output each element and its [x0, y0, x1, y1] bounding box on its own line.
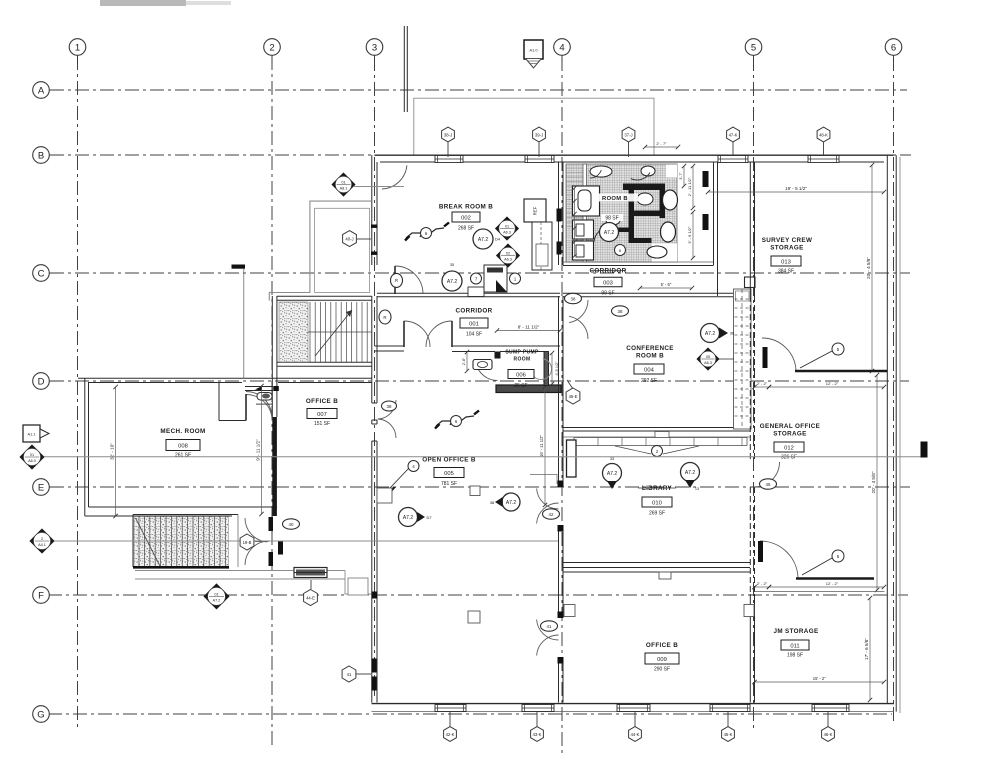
break room SW door — [395, 266, 423, 294]
west wall of main wing — [371, 155, 373, 265]
svg-text:12' - 2": 12' - 2" — [826, 581, 839, 586]
svg-text:A7.2: A7.2 — [403, 515, 414, 521]
hexagon 40-J NW — [357, 238, 371, 240]
canopy outline north — [414, 98, 654, 155]
svg-text:D4: D4 — [495, 237, 501, 242]
keynote hexagons bottom — [449, 712, 451, 727]
svg-text:A7.2: A7.2 — [506, 500, 517, 506]
svg-text:OPEN OFFICE B: OPEN OFFICE B — [422, 457, 476, 464]
svg-text:01: 01 — [341, 181, 345, 185]
svg-text:13: 13 — [695, 487, 699, 491]
svg-text:ROOM: ROOM — [514, 357, 531, 363]
svg-text:SURVEY CREW: SURVEY CREW — [762, 237, 813, 244]
svg-text:37-J: 37-J — [624, 132, 632, 137]
svg-text:5' - 5": 5' - 5" — [661, 282, 672, 287]
svg-text:25 SF: 25 SF — [514, 383, 527, 389]
north windows — [435, 156, 463, 163]
hexagon 44-E walkway — [310, 580, 312, 589]
svg-text:008: 008 — [178, 443, 188, 449]
south exterior wall — [372, 703, 895, 705]
svg-text:198 SF: 198 SF — [787, 653, 803, 659]
east exterior wall — [886, 155, 888, 704]
svg-text:9' - 11 1/2": 9' - 11 1/2" — [256, 439, 261, 461]
upper stair treads — [308, 302, 372, 362]
svg-text:A6.3: A6.3 — [504, 258, 512, 262]
svg-text:006: 006 — [516, 372, 526, 378]
svg-text:012: 012 — [784, 445, 794, 451]
REF closet — [524, 199, 546, 222]
svg-text:39-J: 39-J — [535, 132, 543, 137]
west wall window glazing marks — [371, 225, 378, 228]
svg-text:2' - 11 1/2": 2' - 11 1/2" — [687, 177, 692, 196]
svg-text:ROOM B: ROOM B — [602, 196, 628, 202]
svg-text:384 SF: 384 SF — [778, 269, 794, 275]
svg-text:CORRIDOR: CORRIDOR — [589, 268, 626, 275]
svg-text:42-K: 42-K — [446, 732, 455, 737]
break room tags — [473, 229, 493, 249]
svg-text:38: 38 — [387, 404, 392, 409]
hexagon 45-E sump — [567, 380, 573, 389]
sump big circle symbol — [531, 359, 552, 380]
svg-text:20' - 4 5/8": 20' - 4 5/8" — [871, 471, 876, 493]
restroom left dim string — [574, 188, 576, 256]
storage west door — [755, 462, 780, 487]
svg-text:46-K: 46-K — [824, 732, 833, 737]
svg-text:48-K: 48-K — [819, 132, 828, 137]
svg-text:ROOM B: ROOM B — [636, 353, 664, 360]
A7.2 + diamond tags by conference — [701, 324, 720, 343]
break room casework — [532, 222, 552, 270]
survey west wall — [749, 162, 751, 296]
svg-text:38: 38 — [490, 500, 495, 505]
svg-text:261 SF: 261 SF — [175, 453, 191, 459]
svg-text:45: 45 — [766, 482, 771, 487]
column stub above mech (row C) — [232, 265, 246, 269]
walkway south edge — [135, 570, 345, 572]
svg-text:MECH. ROOM: MECH. ROOM — [160, 428, 205, 435]
svg-text:42: 42 — [549, 512, 554, 517]
svg-text:41: 41 — [547, 624, 552, 629]
svg-text:R: R — [383, 315, 386, 320]
svg-text:A1.0: A1.0 — [529, 48, 538, 53]
corridor 003 walls — [563, 261, 714, 263]
svg-text:R: R — [395, 278, 398, 283]
upper stair enclosure — [277, 295, 372, 297]
svg-text:A1.1: A1.1 — [27, 432, 35, 437]
restroom stalls white — [573, 186, 600, 216]
break room NW door — [382, 165, 407, 189]
svg-text:326 SF: 326 SF — [781, 455, 797, 461]
restroom east wall — [713, 162, 715, 265]
mech wing north wall — [78, 377, 372, 379]
restroom internal walls thin — [583, 164, 587, 262]
svg-text:011: 011 — [790, 643, 799, 649]
dim right of restroom — [692, 166, 694, 208]
svg-text:38: 38 — [618, 309, 623, 314]
svg-text:002: 002 — [461, 215, 471, 221]
A7.2 tag inside restroom — [600, 223, 619, 242]
svg-text:20' - 4 5/8": 20' - 4 5/8" — [866, 257, 871, 279]
corridor south wall + doors — [375, 345, 405, 347]
svg-text:269 SF: 269 SF — [649, 511, 665, 517]
lower stair treads & speckle — [134, 517, 229, 567]
west wall doors office007 — [378, 400, 396, 419]
grid bubbles columns — [77, 55, 79, 62]
svg-text:A8.1: A8.1 — [340, 187, 348, 191]
oval by entry — [379, 310, 391, 324]
svg-text:A6.3: A6.3 — [503, 231, 511, 235]
conference west double doors — [569, 300, 588, 323]
sump alcove fixture — [473, 360, 492, 370]
svg-text:16' - 11 1/2": 16' - 11 1/2" — [539, 434, 544, 457]
entry vestibule door (mech north) — [245, 386, 273, 388]
svg-text:SUMP PUMP: SUMP PUMP — [505, 350, 539, 356]
svg-text:013: 013 — [781, 259, 791, 265]
svg-text:A7.2: A7.2 — [213, 598, 221, 602]
svg-text:99 SF: 99 SF — [601, 291, 614, 297]
svg-text:38-J: 38-J — [444, 132, 452, 137]
recess niche in corridor north wall — [468, 287, 484, 297]
restroom black wall cluster — [623, 184, 665, 191]
walkway square notch — [348, 578, 368, 595]
svg-text:007: 007 — [317, 412, 327, 418]
svg-text:REF: REF — [533, 206, 538, 215]
mech room interior notch — [219, 420, 246, 422]
svg-text:47-K: 47-K — [729, 132, 738, 137]
svg-text:43-K: 43-K — [533, 732, 542, 737]
keynote hexagons top — [447, 142, 449, 157]
central north-south wall x560 — [558, 162, 560, 265]
svg-text:151 SF: 151 SF — [314, 421, 330, 427]
library west doors — [537, 489, 559, 510]
svg-text:LIBRARY: LIBRARY — [642, 485, 673, 492]
svg-text:05: 05 — [706, 355, 710, 359]
svg-text:C: C — [38, 269, 45, 280]
svg-text:5' - 6 1/2": 5' - 6 1/2" — [687, 226, 692, 243]
flag pole wall stub — [403, 26, 405, 112]
svg-text:781 SF: 781 SF — [441, 481, 457, 487]
sump pump room walls — [496, 385, 561, 393]
storage west wall dashed — [749, 372, 751, 462]
svg-text:STORAGE: STORAGE — [773, 431, 806, 438]
svg-text:33: 33 — [610, 457, 614, 461]
svg-text:19' - 5 1/2": 19' - 5 1/2" — [785, 186, 807, 191]
svg-text:CORRIDOR: CORRIDOR — [455, 308, 492, 315]
stair-vestibule double door — [245, 518, 267, 542]
svg-text:BREAK ROOM B: BREAK ROOM B — [439, 204, 493, 211]
svg-text:010: 010 — [652, 500, 662, 506]
svg-text:D: D — [38, 377, 45, 388]
library north casework — [563, 436, 750, 438]
counter line open office — [530, 475, 557, 485]
walkway louver — [294, 568, 327, 578]
squiggles — [406, 233, 422, 238]
hexagon 19-B stairs — [240, 534, 254, 550]
svg-text:004: 004 — [644, 367, 654, 373]
svg-text:45-K: 45-K — [724, 732, 733, 737]
conference east casework — [734, 289, 752, 429]
JM door — [760, 541, 798, 579]
corridor north wall — [377, 292, 560, 294]
svg-text:44-E: 44-E — [306, 595, 315, 600]
mech room east wall black — [272, 417, 277, 516]
svg-text:A7.2: A7.2 — [478, 237, 489, 243]
svg-text:2' - 2": 2' - 2" — [757, 581, 768, 586]
NW porch enclosure — [269, 201, 372, 300]
svg-text:003: 003 — [603, 280, 613, 286]
svg-text:A7.2: A7.2 — [447, 279, 458, 285]
restroom tile floor — [566, 164, 677, 262]
svg-text:A6.3: A6.3 — [704, 361, 712, 365]
restroom west strip rungs — [566, 168, 583, 227]
north exterior wall row B — [375, 154, 894, 156]
svg-text:38: 38 — [571, 296, 576, 301]
svg-text:01: 01 — [505, 225, 509, 229]
svg-text:290 SF: 290 SF — [654, 667, 670, 673]
svg-text:17' - 6 5/8": 17' - 6 5/8" — [864, 638, 869, 660]
svg-text:F: F — [38, 591, 44, 602]
svg-text:8' - 11 1/2": 8' - 11 1/2" — [518, 325, 540, 330]
svg-text:5: 5 — [751, 43, 756, 54]
hexagon 41-B — [356, 673, 371, 675]
svg-text:98 SF: 98 SF — [605, 216, 618, 222]
svg-text:12' - 2": 12' - 2" — [826, 381, 839, 386]
svg-text:CONFERENCE: CONFERENCE — [626, 345, 674, 352]
svg-text:STORAGE: STORAGE — [770, 245, 803, 252]
grid column lines — [77, 56, 79, 730]
svg-text:35: 35 — [450, 263, 454, 267]
svg-text:A6.0: A6.0 — [28, 459, 36, 463]
svg-text:B: B — [38, 151, 44, 162]
library tags — [603, 464, 622, 483]
svg-text:32' - 10": 32' - 10" — [110, 443, 115, 460]
svg-text:44-K: 44-K — [631, 732, 640, 737]
svg-text:OFFICE B: OFFICE B — [306, 398, 338, 405]
svg-text:104 SF: 104 SF — [466, 332, 482, 338]
white box above casework — [745, 277, 756, 288]
black ticks east of restroom — [703, 171, 709, 187]
open office columns — [468, 611, 480, 623]
svg-text:A7.2: A7.2 — [607, 471, 618, 477]
hexagon 44-E row F — [304, 590, 318, 606]
svg-text:009: 009 — [657, 657, 667, 663]
A7.2 tags misc — [399, 508, 418, 527]
mech wing west wall — [84, 378, 86, 516]
south windows — [435, 705, 466, 712]
svg-text:2: 2 — [41, 537, 43, 541]
svg-text:A4.1: A4.1 — [38, 543, 46, 547]
svg-text:JM STORAGE: JM STORAGE — [773, 628, 818, 635]
svg-text:OFFICE B: OFFICE B — [646, 642, 678, 649]
restroom labels — [592, 194, 638, 202]
office 009 west doors — [537, 620, 559, 641]
library west bookcase — [567, 440, 577, 477]
svg-text:3'-7": 3'-7" — [679, 172, 683, 180]
library south wall — [563, 562, 750, 564]
left side symbols — [23, 425, 40, 442]
svg-text:A7.2: A7.2 — [685, 470, 696, 476]
svg-text:01: 01 — [214, 592, 218, 596]
title smudge — [100, 0, 186, 6]
svg-text:2'-8": 2'-8" — [462, 357, 466, 365]
svg-text:268 SF: 268 SF — [458, 226, 474, 232]
restroom door arcs — [631, 173, 650, 180]
svg-text:6: 6 — [891, 43, 896, 54]
svg-text:2' - 7": 2' - 7" — [656, 141, 667, 146]
svg-text:001: 001 — [469, 321, 479, 327]
lower stair bottom black wall — [133, 566, 229, 569]
svg-text:41: 41 — [347, 672, 352, 677]
svg-text:1: 1 — [75, 43, 80, 54]
conference south wall — [563, 427, 750, 429]
svg-text:45-E: 45-E — [569, 394, 578, 399]
section marker top — [524, 40, 543, 59]
mech wing south wall — [85, 515, 232, 517]
svg-text:02: 02 — [506, 252, 510, 256]
svg-text:292 SF: 292 SF — [641, 378, 657, 384]
svg-text:G: G — [37, 710, 44, 721]
grid bubbles rows — [49, 89, 62, 91]
svg-text:A7.2: A7.2 — [705, 331, 716, 337]
svg-text:15' - 2": 15' - 2" — [813, 676, 827, 681]
circle 4 tag with leader — [408, 461, 419, 472]
svg-text:40-J: 40-J — [345, 236, 353, 241]
svg-text:4: 4 — [559, 43, 564, 54]
svg-text:01: 01 — [30, 453, 34, 457]
svg-text:2: 2 — [269, 43, 274, 54]
svg-text:2' - 2": 2' - 2" — [757, 381, 768, 386]
svg-text:3: 3 — [372, 43, 377, 54]
grid row lines — [50, 89, 907, 91]
svg-text:GENERAL OFFICE: GENERAL OFFICE — [760, 423, 820, 430]
svg-text:A: A — [38, 86, 45, 97]
mech room door arc — [246, 395, 272, 421]
break room island — [484, 265, 507, 292]
lower stair enclosure walls — [133, 514, 238, 516]
svg-text:005: 005 — [444, 471, 454, 477]
svg-text:19-B: 19-B — [243, 540, 252, 545]
restroom white cut region SE — [652, 244, 677, 263]
svg-text:E: E — [38, 483, 44, 494]
svg-text:A7.2: A7.2 — [604, 230, 615, 236]
svg-text:36: 36 — [730, 331, 735, 336]
restroom fixtures — [590, 166, 612, 177]
svg-text:40: 40 — [289, 522, 294, 527]
upper stair speckled landing — [279, 302, 308, 362]
svg-text:D7: D7 — [426, 515, 432, 520]
survey south door + wall — [762, 338, 796, 372]
